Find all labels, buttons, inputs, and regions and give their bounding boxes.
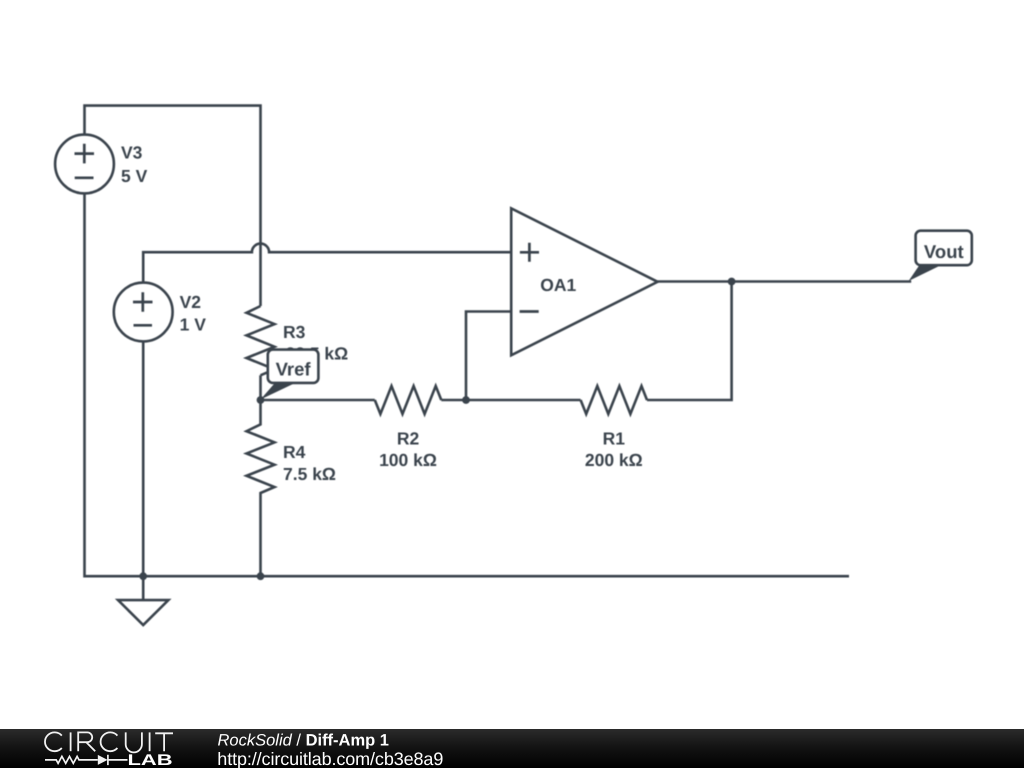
svg-text:OA1: OA1 xyxy=(540,275,576,295)
svg-text:Vout: Vout xyxy=(924,241,964,262)
svg-text:1 V: 1 V xyxy=(180,315,207,335)
svg-text:200 kΩ: 200 kΩ xyxy=(585,450,643,470)
svg-text:R4: R4 xyxy=(283,442,306,462)
svg-text:RockSolid / Diff-Amp 1: RockSolid / Diff-Amp 1 xyxy=(218,732,389,750)
svg-text:7.5 kΩ: 7.5 kΩ xyxy=(283,464,336,484)
svg-text:R1: R1 xyxy=(603,429,626,449)
svg-text:R3: R3 xyxy=(283,322,306,342)
svg-text:V2: V2 xyxy=(180,292,202,312)
svg-text:Vref: Vref xyxy=(276,359,312,380)
svg-text:V3: V3 xyxy=(121,143,143,163)
svg-text:100 kΩ: 100 kΩ xyxy=(379,450,437,470)
svg-text:R2: R2 xyxy=(397,429,420,449)
svg-text:http://circuitlab.com/cb3e8a9: http://circuitlab.com/cb3e8a9 xyxy=(217,749,443,768)
svg-text:5 V: 5 V xyxy=(121,166,148,186)
svg-text:LAB: LAB xyxy=(128,752,173,768)
